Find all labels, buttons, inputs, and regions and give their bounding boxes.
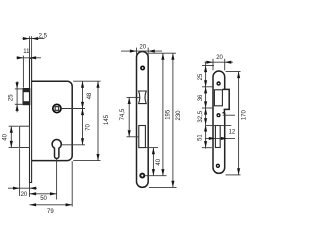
svg-text:25: 25: [198, 73, 204, 80]
deadbolt opening (strike): [215, 126, 220, 148]
svg-text:2,5: 2,5: [39, 33, 48, 39]
dimension 48 (top to follower): [81, 81, 93, 108]
dimension 20 (deadbolt throw): [8, 187, 37, 198]
extension line body top: [73, 80, 100, 82]
dimension 40 (cutout bottom to screw): [152, 148, 162, 176]
extension line keyhole centre: [62, 144, 85, 146]
top screw hole (strike): [217, 82, 220, 85]
svg-text:20: 20: [21, 192, 28, 198]
svg-text:230: 230: [176, 110, 182, 121]
dimension 170 (strike height): [226, 72, 248, 175]
latch bolt: [23, 88, 30, 104]
dimension 50 (backset): [30, 192, 57, 202]
dimension 195 (plate top to lower screw): [161, 53, 171, 176]
svg-text:145: 145: [104, 114, 110, 125]
svg-text:40: 40: [156, 158, 162, 165]
extension line follower centre: [61, 108, 85, 110]
svg-text:170: 170: [242, 110, 248, 121]
svg-text:12: 12: [229, 130, 236, 136]
lock case body: [32, 81, 73, 160]
svg-text:48: 48: [87, 92, 93, 99]
latch cutout (spool): [139, 91, 147, 104]
dimension 70 (follower to keyhole): [81, 109, 91, 145]
follower (square spindle hub): [53, 104, 61, 112]
svg-text:32,5: 32,5: [198, 110, 204, 122]
extension plate bottom right: [149, 186, 177, 188]
dimension 145 (case height): [96, 81, 110, 160]
dimension 40 (deadbolt height, far left): [2, 126, 18, 147]
extension line body bottom: [73, 160, 100, 162]
svg-text:70: 70: [85, 123, 91, 130]
dimension 11 (latch projection): [17, 49, 42, 88]
lower screw hole: [140, 174, 144, 178]
svg-text:195: 195: [166, 109, 172, 120]
svg-text:20: 20: [216, 55, 223, 61]
dimension 230 (overall): [171, 53, 181, 187]
extension keyhole centre down: [56, 159, 58, 200]
dimension 20 (strike width): [205, 55, 233, 70]
middle hole (strike): [217, 114, 220, 117]
extension deadbolt cutout bottom right: [146, 147, 158, 149]
extension lower screw right: [145, 175, 167, 177]
dimension 2,5 (faceplate thickness): [23, 33, 48, 57]
extension body right down: [71, 161, 73, 206]
dimension 79 (case depth): [30, 203, 73, 215]
svg-text:36: 36: [198, 94, 204, 101]
extension line middle hole (strike): [223, 114, 235, 116]
deadbolt (thrown): [20, 126, 30, 147]
strike plate (stadium, right edge interrupted by lip): [213, 71, 225, 173]
svg-text:51: 51: [198, 134, 204, 141]
svg-text:50: 50: [40, 196, 47, 202]
svg-text:74,5: 74,5: [120, 108, 126, 120]
tick latch top: [202, 86, 213, 88]
euro cylinder keyhole: [52, 140, 61, 159]
extension deadbolt face down: [19, 148, 21, 196]
bottom screw hole (strike): [216, 164, 219, 167]
deadbolt cutout: [139, 126, 146, 148]
arrows: [204, 66, 207, 73]
top screw hole: [141, 66, 144, 69]
dimension 74,5 (latch axis to bolt axis): [120, 97, 139, 136]
faceplate (front, stadium): [137, 52, 149, 188]
extension line cutout top (strike): [206, 124, 232, 126]
dimension 25 (latch height): [9, 81, 23, 112]
strike left dimension chain: [198, 62, 214, 149]
tick latch bottom: [202, 107, 213, 109]
extension plate top right: [149, 52, 176, 54]
dimension 20 (faceplate width): [121, 44, 162, 55]
svg-text:40: 40: [2, 133, 8, 140]
chain line: [205, 62, 207, 149]
svg-text:79: 79: [47, 209, 54, 215]
extension faceplate face down: [29, 183, 31, 197]
svg-text:25: 25: [9, 94, 15, 101]
svg-text:20: 20: [139, 44, 146, 50]
svg-text:11: 11: [23, 49, 30, 55]
strike lip tab: [223, 89, 230, 112]
dimension 12 (deadbolt opening width): [205, 130, 236, 140]
latch opening (strike): [214, 90, 222, 106]
faceplate (side): [30, 58, 32, 182]
tick bottom screw: [202, 147, 212, 149]
tick top: [202, 65, 214, 67]
